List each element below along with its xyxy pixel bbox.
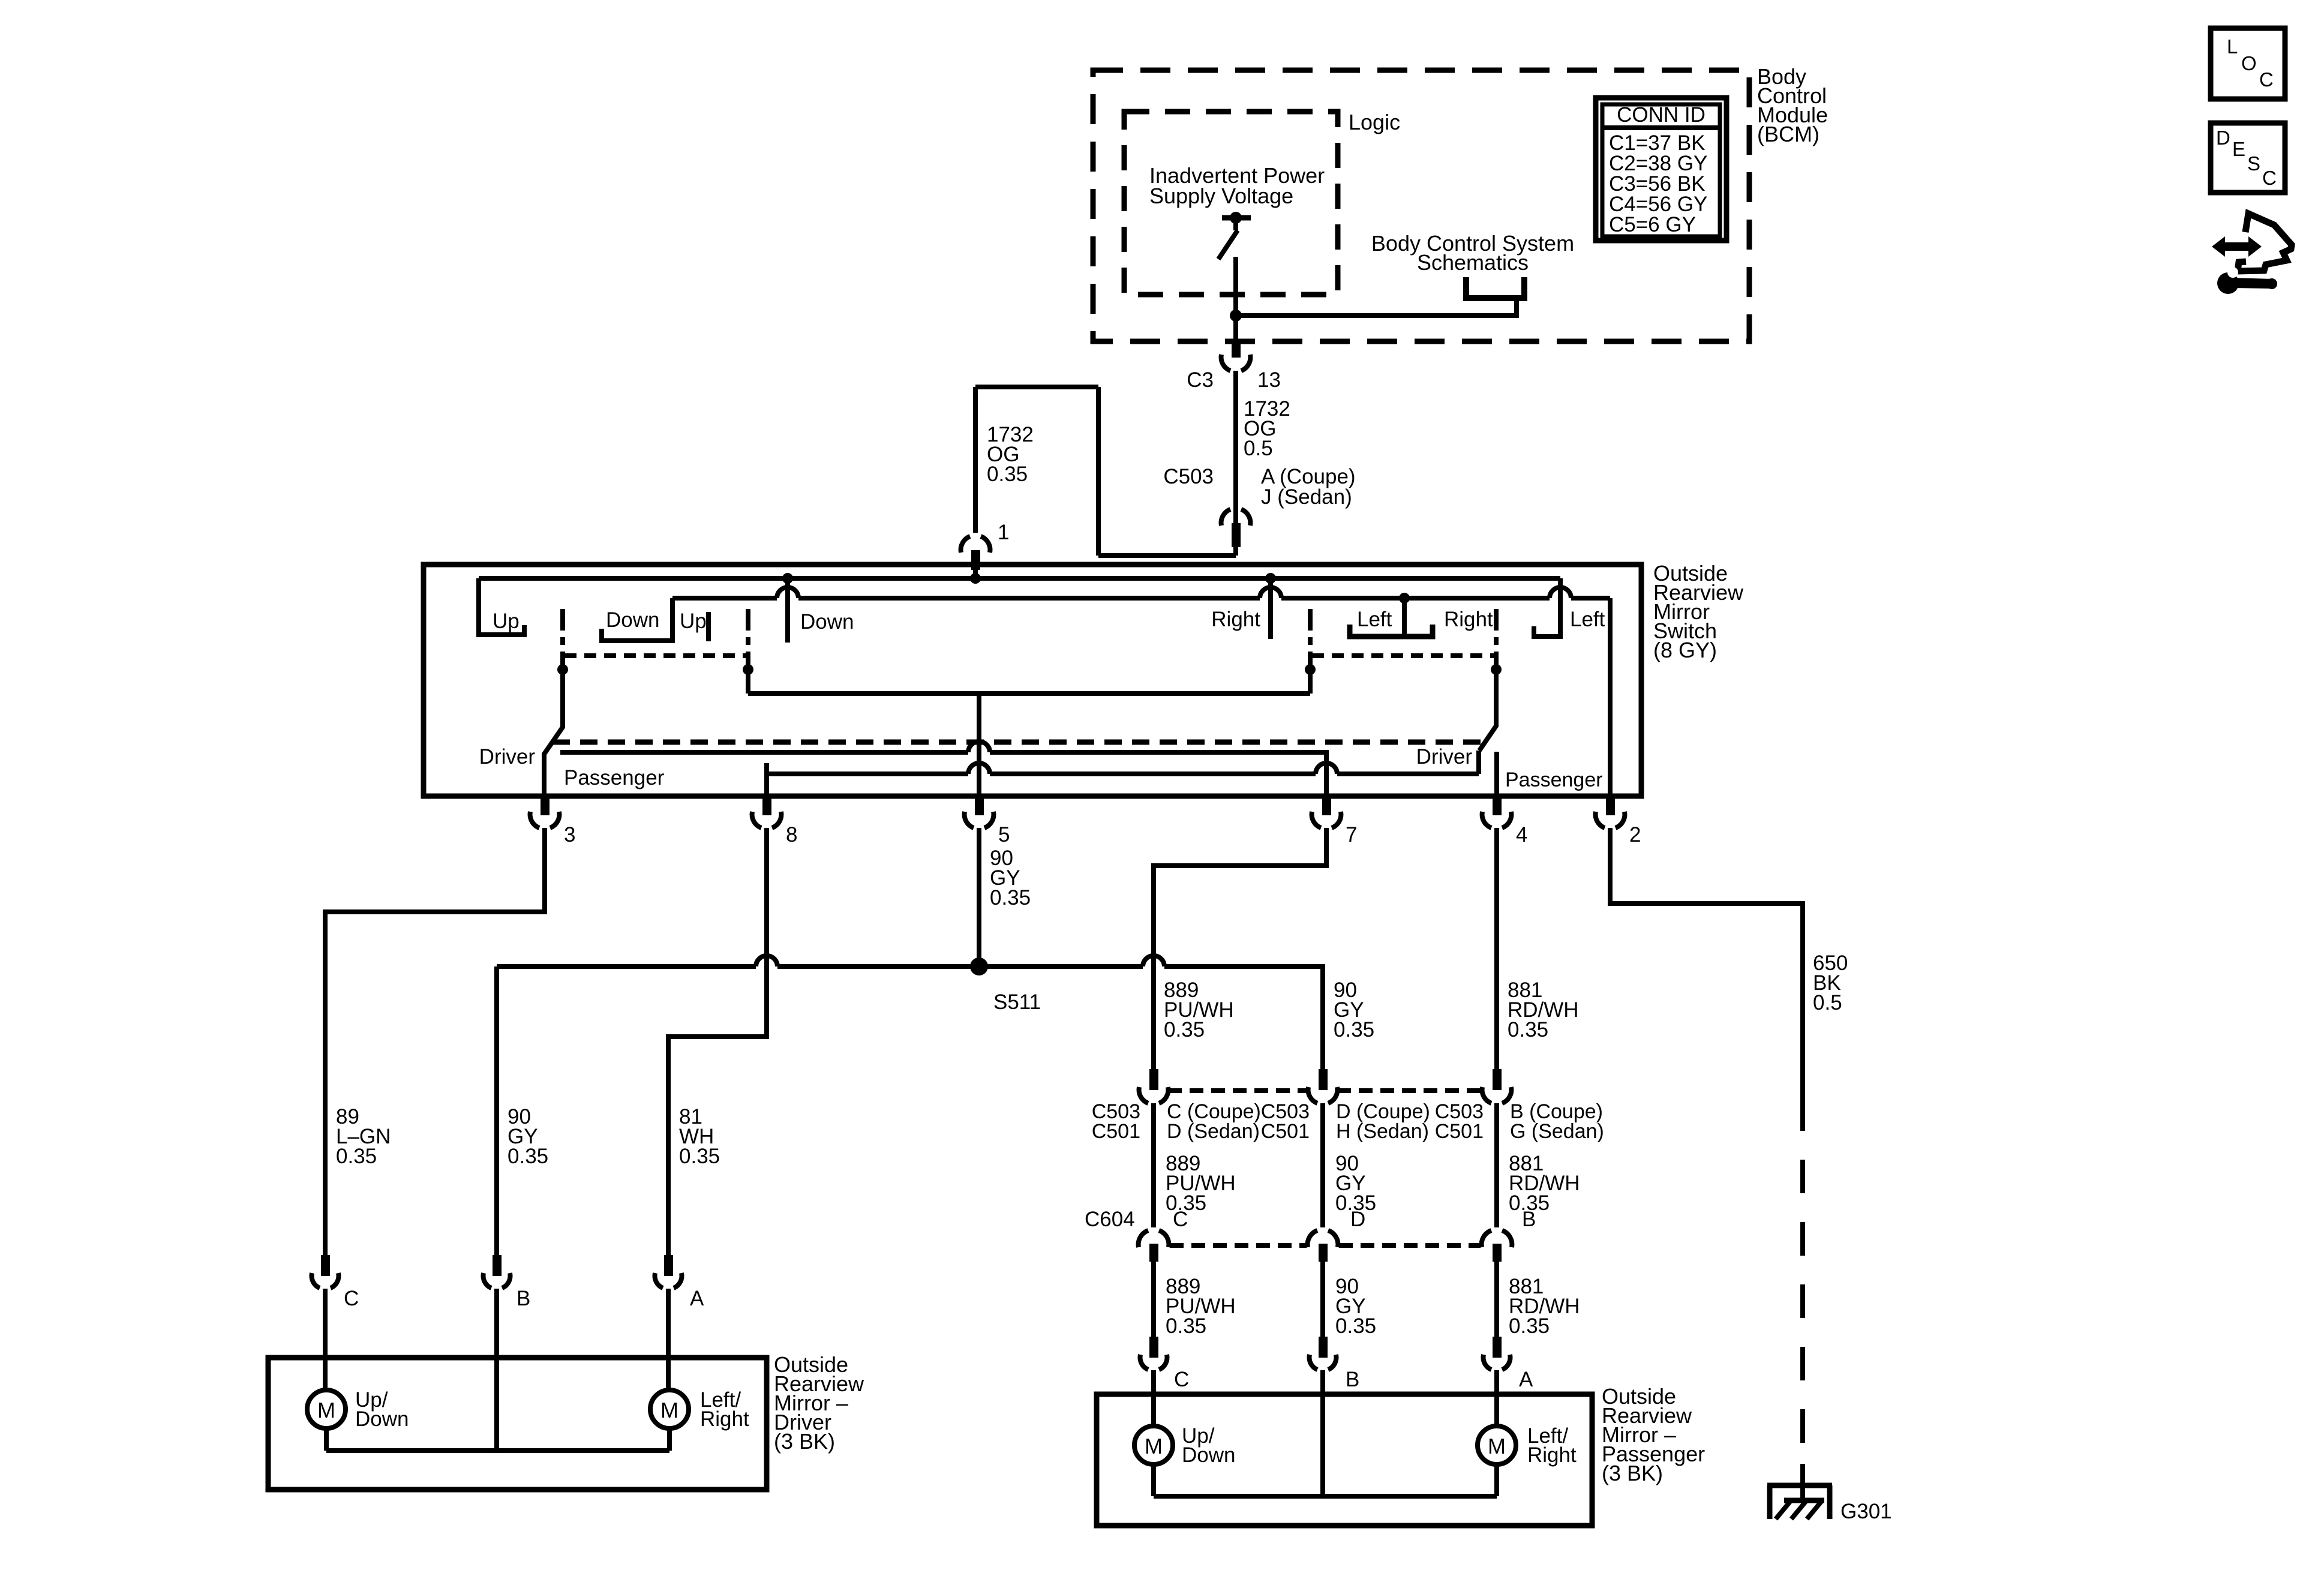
svg-text:(8 GY): (8 GY): [1653, 638, 1717, 662]
svg-text:Down: Down: [355, 1407, 409, 1431]
svg-text:C3: C3: [1187, 368, 1214, 392]
svg-text:0.35: 0.35: [1334, 1018, 1374, 1041]
svg-text:Up: Up: [493, 610, 520, 633]
svg-text:B: B: [517, 1287, 530, 1310]
svg-text:3: 3: [564, 823, 575, 846]
svg-text:G (Sedan): G (Sedan): [1510, 1120, 1604, 1143]
svg-text:13: 13: [1257, 368, 1281, 392]
svg-text:Schematics: Schematics: [1417, 250, 1529, 275]
svg-text:C501: C501: [1435, 1120, 1484, 1143]
svg-text:C501: C501: [1261, 1120, 1310, 1143]
svg-text:(3 BK): (3 BK): [774, 1429, 835, 1454]
svg-text:Logic: Logic: [1349, 110, 1400, 134]
svg-text:M: M: [1488, 1434, 1506, 1458]
svg-text:C: C: [1174, 1368, 1189, 1391]
svg-text:J (Sedan): J (Sedan): [1261, 485, 1352, 509]
svg-text:Left: Left: [1570, 608, 1605, 631]
svg-text:D: D: [1350, 1208, 1365, 1231]
svg-text:Right: Right: [1527, 1443, 1577, 1467]
svg-text:C503: C503: [1163, 465, 1214, 488]
svg-text:8: 8: [786, 823, 797, 846]
svg-text:0.35: 0.35: [1164, 1018, 1205, 1041]
svg-text:C: C: [2262, 167, 2277, 189]
svg-text:(BCM): (BCM): [1757, 122, 1819, 146]
svg-text:Down: Down: [606, 608, 659, 632]
svg-text:0.35: 0.35: [990, 886, 1031, 909]
svg-text:0.5: 0.5: [1244, 437, 1273, 460]
svg-text:0.35: 0.35: [679, 1145, 720, 1168]
svg-text:0.5: 0.5: [1813, 991, 1842, 1014]
svg-text:Driver: Driver: [1416, 745, 1473, 769]
svg-text:0.35: 0.35: [1335, 1314, 1376, 1338]
svg-text:Driver: Driver: [479, 745, 536, 769]
svg-text:2: 2: [1629, 823, 1641, 846]
svg-text:0.35: 0.35: [508, 1145, 548, 1168]
svg-text:B: B: [1346, 1368, 1359, 1391]
svg-text:H (Sedan): H (Sedan): [1336, 1120, 1429, 1143]
svg-text:C5=6 GY: C5=6 GY: [1609, 213, 1696, 236]
svg-text:Passenger: Passenger: [1505, 769, 1603, 791]
svg-text:0.35: 0.35: [336, 1145, 377, 1168]
svg-text:Supply Voltage: Supply Voltage: [1149, 184, 1293, 208]
svg-text:Passenger: Passenger: [564, 766, 665, 789]
svg-text:S: S: [2247, 152, 2260, 175]
svg-text:M: M: [317, 1398, 335, 1422]
svg-text:C: C: [2259, 68, 2274, 91]
svg-text:L: L: [2227, 35, 2238, 58]
svg-text:B: B: [1522, 1208, 1536, 1231]
svg-text:(3 BK): (3 BK): [1602, 1461, 1663, 1485]
svg-text:Up: Up: [680, 610, 707, 633]
svg-text:G301: G301: [1840, 1500, 1892, 1523]
svg-text:CONN ID: CONN ID: [1617, 103, 1706, 127]
svg-text:Right: Right: [1444, 608, 1493, 631]
svg-text:O: O: [2241, 52, 2257, 74]
svg-text:M: M: [660, 1398, 678, 1422]
svg-text:C604: C604: [1085, 1208, 1135, 1231]
svg-text:7: 7: [1346, 823, 1357, 846]
svg-text:Right: Right: [1211, 608, 1260, 631]
svg-text:0.35: 0.35: [1166, 1314, 1206, 1338]
svg-text:A: A: [1519, 1368, 1533, 1391]
svg-text:E: E: [2232, 138, 2245, 160]
svg-text:4: 4: [1516, 823, 1527, 846]
svg-text:D (Sedan): D (Sedan): [1167, 1120, 1260, 1143]
svg-text:0.35: 0.35: [987, 463, 1028, 486]
svg-text:Right: Right: [700, 1407, 749, 1431]
svg-text:C: C: [344, 1287, 359, 1310]
svg-text:1: 1: [998, 521, 1009, 544]
svg-text:A: A: [690, 1287, 704, 1310]
svg-text:Down: Down: [1182, 1443, 1235, 1467]
svg-text:Left: Left: [1357, 608, 1392, 631]
svg-text:C: C: [1173, 1208, 1188, 1231]
svg-text:0.35: 0.35: [1508, 1018, 1548, 1041]
svg-text:C501: C501: [1092, 1120, 1140, 1143]
svg-text:5: 5: [998, 823, 1010, 846]
svg-text:S511: S511: [993, 990, 1041, 1014]
svg-text:D: D: [2216, 127, 2230, 149]
svg-text:Down: Down: [800, 610, 854, 634]
svg-text:M: M: [1145, 1434, 1163, 1458]
svg-text:0.35: 0.35: [1509, 1314, 1550, 1338]
